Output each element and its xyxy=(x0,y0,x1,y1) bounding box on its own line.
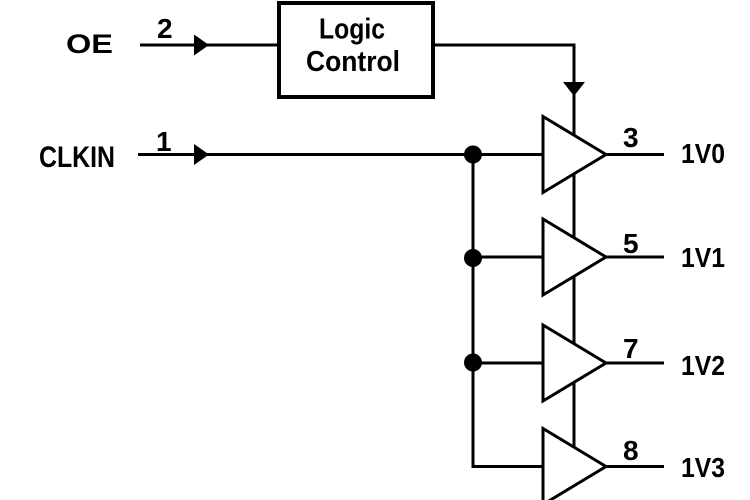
wire clock distribution vertical xyxy=(473,155,543,467)
svg-text:CLKIN: CLKIN xyxy=(39,141,115,174)
svg-text:Control: Control xyxy=(306,46,400,78)
svg-text:1V3: 1V3 xyxy=(681,452,725,483)
svg-text:2: 2 xyxy=(157,13,173,44)
buffer U2C 1Y2 xyxy=(543,325,606,401)
wire CLKIN input xyxy=(138,153,543,156)
wire output 1V2 xyxy=(606,362,664,365)
svg-text:5: 5 xyxy=(623,228,639,259)
logic control block U1 xyxy=(279,3,433,97)
svg-text:8: 8 xyxy=(623,435,639,466)
CLKIN input arrowhead xyxy=(194,144,209,165)
svg-text:3: 3 xyxy=(623,122,639,153)
wire output 1V3 xyxy=(606,465,664,468)
junction buffer3 xyxy=(464,354,482,372)
buffer U2B 1Y1 xyxy=(543,219,606,295)
junction buffer2 xyxy=(464,249,482,267)
svg-text:7: 7 xyxy=(623,333,639,364)
buffer U2D 1Y3 xyxy=(543,429,606,500)
OE input arrowhead xyxy=(194,35,209,56)
buffer U2A 1Y0 xyxy=(543,117,606,193)
wire buffer2 input xyxy=(473,256,543,259)
enable arrowhead down xyxy=(563,82,585,96)
junction CLKIN xyxy=(464,146,482,164)
wire OE enable from block to buffers xyxy=(433,45,574,470)
wire output 1V0 xyxy=(606,153,664,156)
svg-text:1: 1 xyxy=(156,126,172,157)
wire output 1V1 xyxy=(606,256,664,259)
svg-text:Logic: Logic xyxy=(319,14,385,46)
svg-text:1V1: 1V1 xyxy=(681,242,725,273)
svg-text:1V2: 1V2 xyxy=(681,350,725,381)
svg-text:OE: OE xyxy=(66,29,113,59)
wire OE input xyxy=(140,44,279,47)
wire buffer3 input xyxy=(473,362,543,365)
svg-text:1V0: 1V0 xyxy=(681,138,725,169)
